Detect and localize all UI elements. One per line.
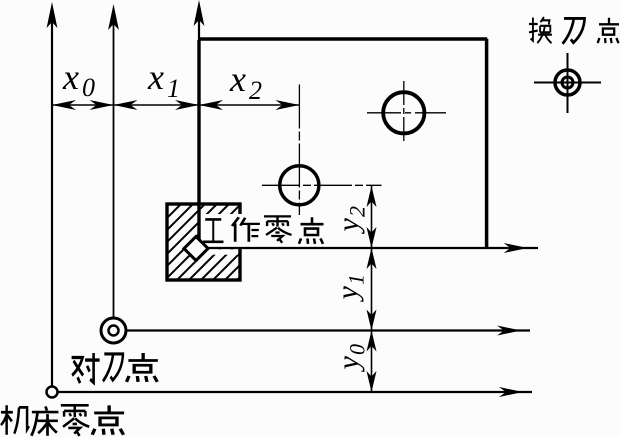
svg-text:y: y (332, 218, 365, 235)
svg-text:y: y (331, 286, 364, 303)
svg-text:x: x (147, 57, 164, 97)
svg-text:x: x (229, 59, 246, 99)
svg-text:1: 1 (344, 274, 369, 285)
svg-text:y: y (332, 356, 365, 373)
svg-text:0: 0 (345, 344, 370, 355)
svg-text:2: 2 (249, 76, 262, 105)
svg-text:1: 1 (167, 74, 180, 103)
svg-text:2: 2 (345, 206, 370, 217)
svg-text:x: x (62, 57, 79, 97)
svg-text:0: 0 (82, 73, 95, 102)
